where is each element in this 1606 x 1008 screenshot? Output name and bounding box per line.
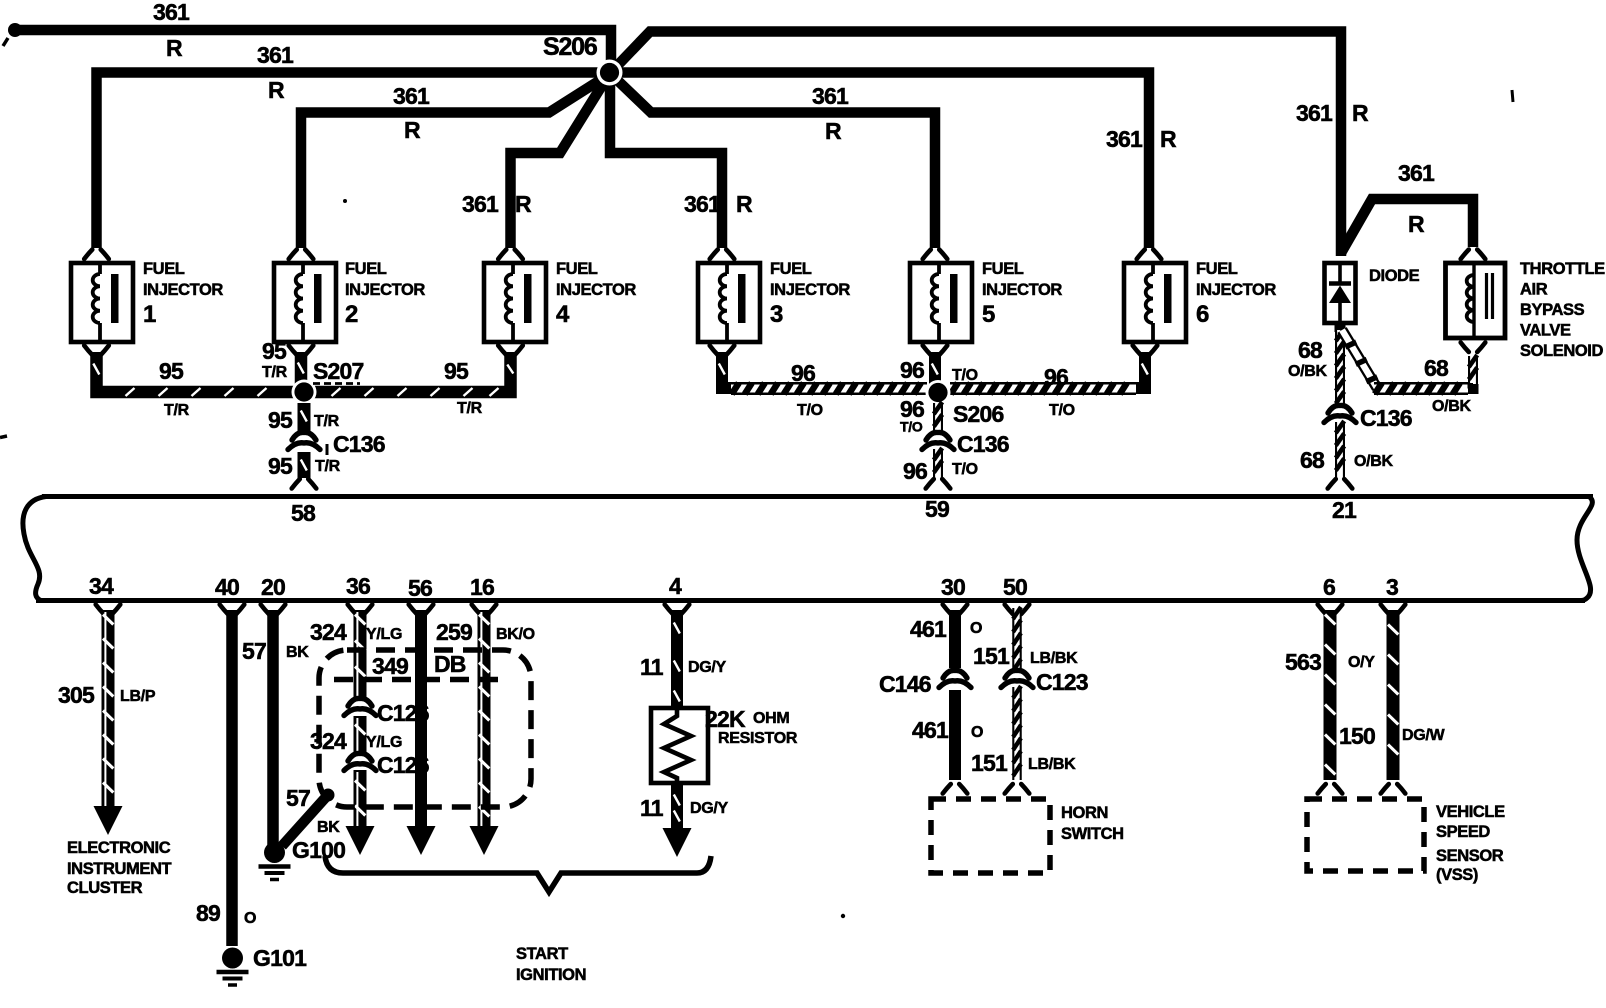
svg-text:RESISTOR: RESISTOR [718, 730, 798, 747]
svg-text:95: 95 [268, 407, 293, 433]
svg-text:259: 259 [436, 619, 472, 645]
svg-text:150: 150 [1339, 723, 1375, 749]
svg-text:START: START [516, 945, 568, 963]
svg-text:O: O [970, 620, 982, 637]
svg-text:C136: C136 [1360, 405, 1412, 431]
svg-text:151: 151 [973, 643, 1010, 669]
svg-text:57: 57 [286, 785, 310, 811]
svg-text:FUEL: FUEL [345, 260, 387, 278]
svg-text:CLUSTER: CLUSTER [67, 879, 143, 897]
svg-text:95: 95 [268, 453, 293, 479]
svg-text:FUEL: FUEL [556, 260, 598, 278]
svg-text:68: 68 [1298, 337, 1323, 363]
svg-text:20: 20 [261, 574, 285, 600]
svg-text:O: O [971, 724, 983, 741]
svg-text:R: R [1408, 211, 1425, 237]
svg-text:R: R [268, 77, 285, 103]
svg-text:LB/BK: LB/BK [1028, 756, 1076, 773]
svg-text:95: 95 [159, 358, 184, 384]
svg-text:INJECTOR: INJECTOR [1196, 281, 1276, 299]
svg-text:95: 95 [262, 338, 287, 364]
svg-text:SPEED: SPEED [1436, 823, 1490, 841]
svg-text:96: 96 [791, 360, 815, 386]
svg-text:461: 461 [912, 717, 949, 743]
svg-text:OHM: OHM [753, 710, 789, 727]
svg-text:Y/LG: Y/LG [366, 734, 402, 751]
svg-text:563: 563 [1285, 649, 1321, 675]
svg-text:IGNITION: IGNITION [516, 966, 586, 984]
svg-text:4: 4 [556, 301, 570, 328]
svg-text:30: 30 [941, 574, 965, 600]
svg-text:T/O: T/O [952, 367, 978, 384]
svg-text:59: 59 [925, 496, 949, 522]
svg-text:DG/W: DG/W [1402, 727, 1446, 744]
svg-text:361: 361 [812, 83, 849, 109]
svg-text:O/BK: O/BK [1354, 453, 1394, 470]
svg-text:DG/Y: DG/Y [690, 800, 729, 817]
svg-text:S207: S207 [313, 358, 364, 384]
svg-text:O/Y: O/Y [1348, 654, 1375, 671]
svg-text:O/BK: O/BK [1288, 363, 1328, 380]
svg-text:57: 57 [242, 638, 266, 664]
svg-text:68: 68 [1300, 447, 1325, 473]
svg-text:R: R [404, 117, 421, 143]
svg-text:R: R [1160, 126, 1177, 152]
svg-text:INSTRUMENT: INSTRUMENT [67, 860, 171, 878]
svg-text:34: 34 [89, 573, 114, 599]
svg-text:21: 21 [1332, 497, 1357, 523]
svg-text:96: 96 [900, 357, 924, 383]
svg-text:T/R: T/R [262, 364, 288, 381]
svg-text:361: 361 [393, 83, 430, 109]
svg-text:T/R: T/R [315, 458, 341, 475]
svg-text:50: 50 [1003, 574, 1027, 600]
svg-text:T/R: T/R [457, 400, 483, 417]
svg-text:68: 68 [1424, 355, 1449, 381]
svg-text:SOLENOID: SOLENOID [1520, 342, 1603, 360]
svg-text:C126: C126 [377, 700, 429, 726]
svg-text:3: 3 [1386, 574, 1398, 600]
svg-text:58: 58 [291, 500, 316, 526]
svg-text:BK: BK [286, 644, 309, 661]
svg-text:461: 461 [910, 616, 947, 642]
svg-text:SENSOR: SENSOR [1436, 847, 1504, 865]
svg-text:O/BK: O/BK [1432, 398, 1472, 415]
svg-text:R: R [166, 35, 183, 61]
svg-text:6: 6 [1196, 301, 1209, 328]
svg-text:LB/P: LB/P [120, 688, 156, 705]
svg-text:DG/Y: DG/Y [688, 659, 727, 676]
svg-text:ELECTRONIC: ELECTRONIC [67, 839, 171, 857]
svg-text:BYPASS: BYPASS [1520, 301, 1585, 319]
svg-text:324: 324 [310, 728, 347, 754]
svg-text:C136: C136 [333, 431, 385, 457]
svg-text:VALVE: VALVE [1520, 322, 1571, 340]
svg-text:T/R: T/R [314, 413, 340, 430]
svg-text:361: 361 [153, 0, 190, 25]
svg-text:95: 95 [444, 358, 469, 384]
svg-text:O: O [244, 910, 256, 927]
svg-text:40: 40 [215, 574, 239, 600]
svg-text:BK/O: BK/O [496, 626, 535, 643]
svg-text:FUEL: FUEL [143, 260, 185, 278]
svg-text:R: R [736, 191, 753, 217]
svg-text:361: 361 [257, 42, 294, 68]
svg-text:INJECTOR: INJECTOR [770, 281, 850, 299]
svg-text:4: 4 [669, 573, 682, 599]
svg-text:AIR: AIR [1520, 281, 1548, 299]
svg-text:R: R [825, 118, 842, 144]
svg-text:361: 361 [1106, 126, 1143, 152]
svg-text:T/O: T/O [797, 402, 823, 419]
svg-text:361: 361 [1296, 100, 1333, 126]
svg-text:C146: C146 [879, 671, 931, 697]
svg-text:T/R: T/R [164, 402, 190, 419]
svg-text:FUEL: FUEL [982, 260, 1024, 278]
svg-text:324: 324 [310, 619, 347, 645]
svg-text:56: 56 [408, 575, 432, 601]
svg-text:T/O: T/O [900, 419, 923, 435]
svg-text:FUEL: FUEL [1196, 260, 1238, 278]
svg-text:(VSS): (VSS) [1436, 866, 1478, 884]
svg-text:89: 89 [196, 900, 220, 926]
svg-text:VEHICLE: VEHICLE [1436, 803, 1505, 821]
svg-text:16: 16 [470, 574, 494, 600]
svg-text:1: 1 [143, 301, 156, 328]
svg-text:C126: C126 [377, 752, 429, 778]
svg-text:FUEL: FUEL [770, 260, 812, 278]
svg-text:DB: DB [434, 651, 466, 677]
svg-text:T/O: T/O [1049, 402, 1075, 419]
svg-text:96: 96 [1044, 364, 1068, 390]
svg-text:6: 6 [1323, 574, 1335, 600]
svg-text:11: 11 [640, 654, 664, 680]
svg-text:11: 11 [640, 795, 664, 821]
svg-text:INJECTOR: INJECTOR [982, 281, 1062, 299]
svg-text:Y/LG: Y/LG [366, 626, 402, 643]
svg-text:C136: C136 [957, 431, 1009, 457]
svg-text:R: R [515, 191, 532, 217]
svg-text:361: 361 [1398, 160, 1435, 186]
svg-text:G101: G101 [253, 945, 307, 971]
svg-text:361: 361 [462, 191, 499, 217]
svg-text:2: 2 [345, 301, 358, 328]
svg-text:T/O: T/O [952, 461, 978, 478]
svg-text:S206: S206 [953, 401, 1004, 427]
svg-text:S206: S206 [543, 33, 597, 61]
svg-text:361: 361 [684, 191, 721, 217]
svg-text:151: 151 [971, 750, 1008, 776]
svg-text:BK: BK [317, 819, 340, 836]
svg-text:THROTTLE: THROTTLE [1520, 260, 1605, 278]
svg-text:HORN: HORN [1061, 804, 1108, 822]
svg-text:96: 96 [903, 458, 927, 484]
svg-text:DIODE: DIODE [1369, 267, 1420, 285]
svg-text:INJECTOR: INJECTOR [345, 281, 425, 299]
svg-text:SWITCH: SWITCH [1061, 825, 1124, 843]
svg-text:36: 36 [346, 573, 370, 599]
svg-text:22K: 22K [705, 706, 746, 732]
svg-text:INJECTOR: INJECTOR [556, 281, 636, 299]
svg-text:305: 305 [58, 682, 95, 708]
svg-text:C123: C123 [1036, 669, 1088, 695]
svg-text:R: R [1352, 100, 1369, 126]
svg-text:G100: G100 [292, 837, 345, 863]
svg-text:3: 3 [770, 301, 783, 328]
svg-text:349: 349 [372, 653, 408, 679]
svg-text:INJECTOR: INJECTOR [143, 281, 223, 299]
svg-text:LB/BK: LB/BK [1030, 650, 1078, 667]
svg-text:5: 5 [982, 301, 995, 328]
